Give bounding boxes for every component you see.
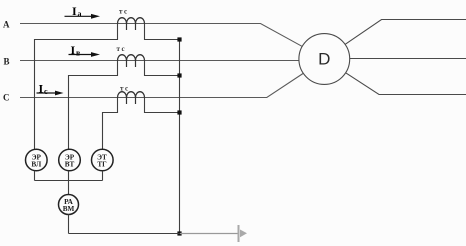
current transformer TC1	[118, 8, 145, 31]
wire phase B	[20, 60, 299, 62]
wire TC2 secondary left	[69, 61, 118, 150]
wire TC3 secondary right	[145, 98, 180, 113]
wire motor lead right middle	[350, 58, 466, 60]
svg-text:C: C	[3, 92, 10, 102]
svg-text:с: с	[44, 87, 48, 96]
svg-text:тс: тс	[117, 45, 127, 53]
phase label C	[3, 92, 10, 102]
wire TC1 secondary left	[35, 24, 118, 150]
relay P1	[26, 149, 48, 171]
node junction TC1 return	[177, 37, 181, 41]
svg-text:тс: тс	[119, 8, 129, 16]
current arrow Ib	[69, 43, 101, 58]
current arrow Ic	[37, 82, 64, 97]
wire phase C	[20, 74, 303, 98]
svg-text:A: A	[3, 20, 10, 30]
relay P3	[92, 149, 114, 171]
wire motor lead right top	[345, 20, 466, 45]
relay P2	[59, 149, 81, 171]
wire TC1 secondary right	[145, 24, 180, 40]
svg-text:ВМ: ВМ	[63, 205, 75, 213]
motor D	[299, 34, 350, 85]
svg-text:B: B	[4, 56, 10, 66]
svg-text:а: а	[78, 10, 82, 19]
svg-text:ВТ: ВТ	[65, 161, 75, 169]
wire secondary bus	[179, 40, 181, 234]
wire TC2 secondary right	[145, 61, 180, 76]
svg-text:D: D	[318, 50, 330, 69]
wire relay P4 to ground run	[68, 214, 70, 233]
svg-text:ТГ: ТГ	[97, 161, 107, 169]
node junction TC2 return	[177, 73, 181, 77]
node junction bus to ground wire	[177, 231, 181, 235]
node junction TC3 return	[177, 110, 181, 114]
current transformer TC2	[117, 45, 145, 67]
phase label A	[3, 20, 10, 30]
wire common to relay P4	[68, 181, 70, 195]
phase label B	[4, 56, 10, 66]
relay P4	[59, 195, 79, 215]
svg-text:ВЛ: ВЛ	[31, 161, 42, 169]
wire motor lead right bottom	[346, 73, 466, 95]
current arrow Ia	[65, 4, 101, 19]
ground arrow	[239, 225, 248, 242]
wire TC3 secondary left	[103, 98, 118, 150]
wire relay bottoms to common	[35, 171, 103, 181]
svg-text:в: в	[76, 49, 81, 58]
wire ground run	[69, 233, 238, 235]
wire phase A	[20, 24, 302, 47]
current transformer TC3	[118, 85, 145, 105]
